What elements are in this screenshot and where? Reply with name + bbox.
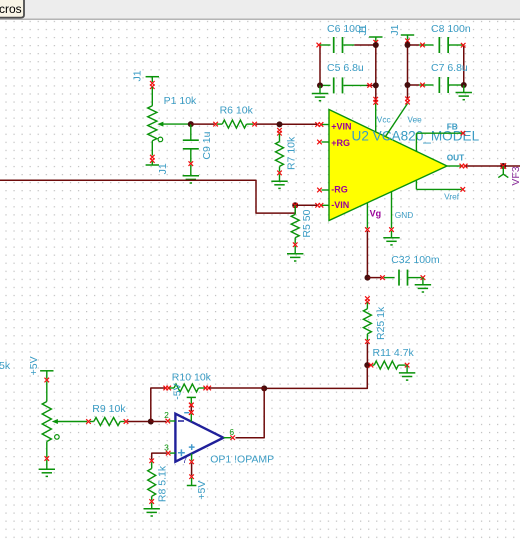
svg-text:P1 10k: P1 10k xyxy=(164,95,197,107)
pin 6 output xyxy=(223,437,231,439)
V+ supply pin (bottom) xyxy=(191,454,193,461)
svg-text:R25 1k: R25 1k xyxy=(375,306,387,340)
node R5 / -VIN xyxy=(292,202,298,208)
svg-text:VF3: VF3 xyxy=(510,166,520,185)
wire C8 group right vertical xyxy=(463,45,465,85)
resistor R6 10k xyxy=(213,122,218,127)
wire R9 to node xyxy=(127,421,151,423)
svg-text:C6 100n: C6 100n xyxy=(327,23,367,35)
wire R6 to +VIN node xyxy=(256,123,280,125)
pin Vcc xyxy=(375,104,377,133)
svg-text:J1: J1 xyxy=(389,24,401,35)
wire C8 group left vertical xyxy=(407,41,409,99)
svg-text:Vcc: Vcc xyxy=(377,114,391,124)
svg-text:U2 VCA820_MODEL: U2 VCA820_MODEL xyxy=(352,128,480,143)
svg-text:C32 100m: C32 100m xyxy=(391,254,440,266)
tab "Macros" (partial) xyxy=(0,0,24,18)
resistor R5 50 xyxy=(294,205,296,214)
node R7 / +VIN xyxy=(277,121,283,127)
wire node down to op-amp output xyxy=(236,388,265,437)
pot wiper arrow xyxy=(56,421,88,423)
wire node to pin 2 xyxy=(151,421,166,423)
svg-text:R7 10k: R7 10k xyxy=(285,136,297,170)
svg-text:-5V: -5V xyxy=(171,383,183,399)
pin Vref xyxy=(415,180,417,190)
wire R10 to feedback node xyxy=(209,387,264,389)
resistor R7 10k xyxy=(277,128,282,133)
pin +RG xyxy=(322,141,330,143)
svg-text:Vref: Vref xyxy=(444,192,460,202)
svg-text:R6 10k: R6 10k xyxy=(220,105,254,117)
wire Vg down xyxy=(366,231,368,278)
wire R25 to R11 node xyxy=(366,343,368,365)
connector J1 bar (P1 top) xyxy=(146,76,159,78)
capacitor C7 xyxy=(408,84,420,86)
svg-text:3: 3 xyxy=(164,443,169,453)
wire P1 node to R6 xyxy=(191,123,215,125)
svg-text:C9 1u: C9 1u xyxy=(201,131,213,159)
node C7 bottom left xyxy=(405,82,411,88)
toolbar strip xyxy=(0,0,520,19)
pot rotation mark o xyxy=(55,435,60,440)
ground (C7 group) xyxy=(463,85,465,93)
resistor R11 4.7k xyxy=(369,363,374,368)
svg-text:R9 10k: R9 10k xyxy=(92,403,126,415)
node Vg / C32 / R25 xyxy=(365,275,371,281)
svg-text:+RG: +RG xyxy=(331,138,350,148)
pin OUT xyxy=(447,165,462,167)
pin Vg xyxy=(366,203,368,229)
svg-text:GND: GND xyxy=(395,210,413,220)
resistor R10 10k xyxy=(163,386,168,391)
potentiometer 5k xyxy=(46,381,48,401)
pin GND xyxy=(391,191,393,228)
pin Vee xyxy=(385,104,407,137)
svg-text:FB: FB xyxy=(447,121,458,131)
wire node up to R10 xyxy=(151,388,165,422)
ground (C5 group) xyxy=(319,85,321,93)
ground (GND pin) xyxy=(391,231,393,238)
wire OUT net xyxy=(466,165,520,167)
ground (C32) xyxy=(415,284,431,286)
node feedback / R10 / out xyxy=(261,385,267,391)
node C5 bottom right xyxy=(373,82,379,88)
ground (R5) xyxy=(287,253,303,255)
capacitor C8 xyxy=(408,44,420,46)
connector J1 top bar (C8 group) xyxy=(401,34,414,36)
capacitor C5 xyxy=(320,84,331,86)
node C5 bottom left xyxy=(317,82,323,88)
ground (C9) xyxy=(183,175,199,177)
wire pin3 to R8 xyxy=(152,453,167,459)
pin -VIN xyxy=(322,204,330,206)
wire node to -VIN xyxy=(295,204,317,206)
node C8 top left xyxy=(405,42,411,48)
svg-text:6: 6 xyxy=(229,427,234,437)
svg-text:+5V: +5V xyxy=(196,481,208,500)
svg-text:2: 2 xyxy=(164,410,169,420)
svg-text:-RG: -RG xyxy=(331,184,348,194)
capacitor C32 100m xyxy=(368,277,382,279)
potentiometer P1 10k xyxy=(151,87,153,106)
ground (pot) xyxy=(39,468,55,470)
P1 rotation mark o xyxy=(158,137,163,142)
resistor R8 5.1k xyxy=(149,459,154,464)
wire C6 group right vertical xyxy=(375,41,377,102)
node C7 bottom right xyxy=(461,82,467,88)
svg-text:R10 10k: R10 10k xyxy=(172,372,212,384)
svg-text:7: 7 xyxy=(183,456,188,465)
svg-text:5k: 5k xyxy=(0,360,11,372)
op-amp U2 VCA820_MODEL body xyxy=(329,110,447,221)
capacitor C6 xyxy=(320,44,331,46)
svg-text:C5 6.8u: C5 6.8u xyxy=(327,62,364,74)
svg-text:+5V: +5V xyxy=(28,356,40,375)
svg-text:cros: cros xyxy=(0,2,22,16)
svg-text:OP1 !OPAMP: OP1 !OPAMP xyxy=(210,453,274,465)
resistor R9 10k xyxy=(86,419,91,424)
svg-text:R5 50: R5 50 xyxy=(301,209,313,237)
wire feedback node down to op-amp xyxy=(264,365,367,388)
ground (R11) xyxy=(399,372,415,374)
node R25 / R11 / feedback xyxy=(364,362,370,368)
power +5V bar (pot) xyxy=(40,370,53,372)
ground (R7) xyxy=(271,180,287,182)
svg-text:C7 6.8u: C7 6.8u xyxy=(431,62,468,74)
node R9 / R10 / pin2 xyxy=(148,419,154,425)
svg-text:C8 100n: C8 100n xyxy=(431,23,471,35)
resistor R25 1k xyxy=(365,296,370,301)
svg-text:+VIN: +VIN xyxy=(331,121,351,131)
connector J1 bar (P1 bottom) xyxy=(150,155,155,160)
svg-text:Vg: Vg xyxy=(370,208,382,218)
voltage probe VF3 xyxy=(502,166,504,174)
node probe VF3 xyxy=(500,163,506,169)
svg-text:J1: J1 xyxy=(131,70,143,81)
wire input net xyxy=(0,180,295,213)
pin -RG xyxy=(322,189,330,191)
wire C6 group left vertical xyxy=(319,45,321,85)
ground (R8) xyxy=(144,508,160,510)
svg-text:OUT: OUT xyxy=(447,153,465,163)
pin FB xyxy=(415,133,417,152)
pin +VIN xyxy=(322,124,330,126)
P1 wiper arrow xyxy=(161,123,191,125)
svg-text:Vee: Vee xyxy=(407,114,422,124)
svg-text:R8 5.1k: R8 5.1k xyxy=(156,465,168,502)
pin 2 inverting xyxy=(169,420,175,422)
capacitor C9 1u xyxy=(190,124,192,140)
node C6 top right xyxy=(373,42,379,48)
node P1 wiper / C9 / R6 xyxy=(188,121,194,127)
V- supply pin (top) xyxy=(187,396,196,398)
connector J1 top bar (C6 group) xyxy=(369,36,382,38)
svg-text:-VIN: -VIN xyxy=(331,200,349,210)
op-amp OP1 body xyxy=(175,414,223,462)
svg-text:R11 4.7k: R11 4.7k xyxy=(373,347,415,359)
svg-text:J1: J1 xyxy=(157,163,169,174)
pin 3 non-inverting xyxy=(170,452,176,454)
